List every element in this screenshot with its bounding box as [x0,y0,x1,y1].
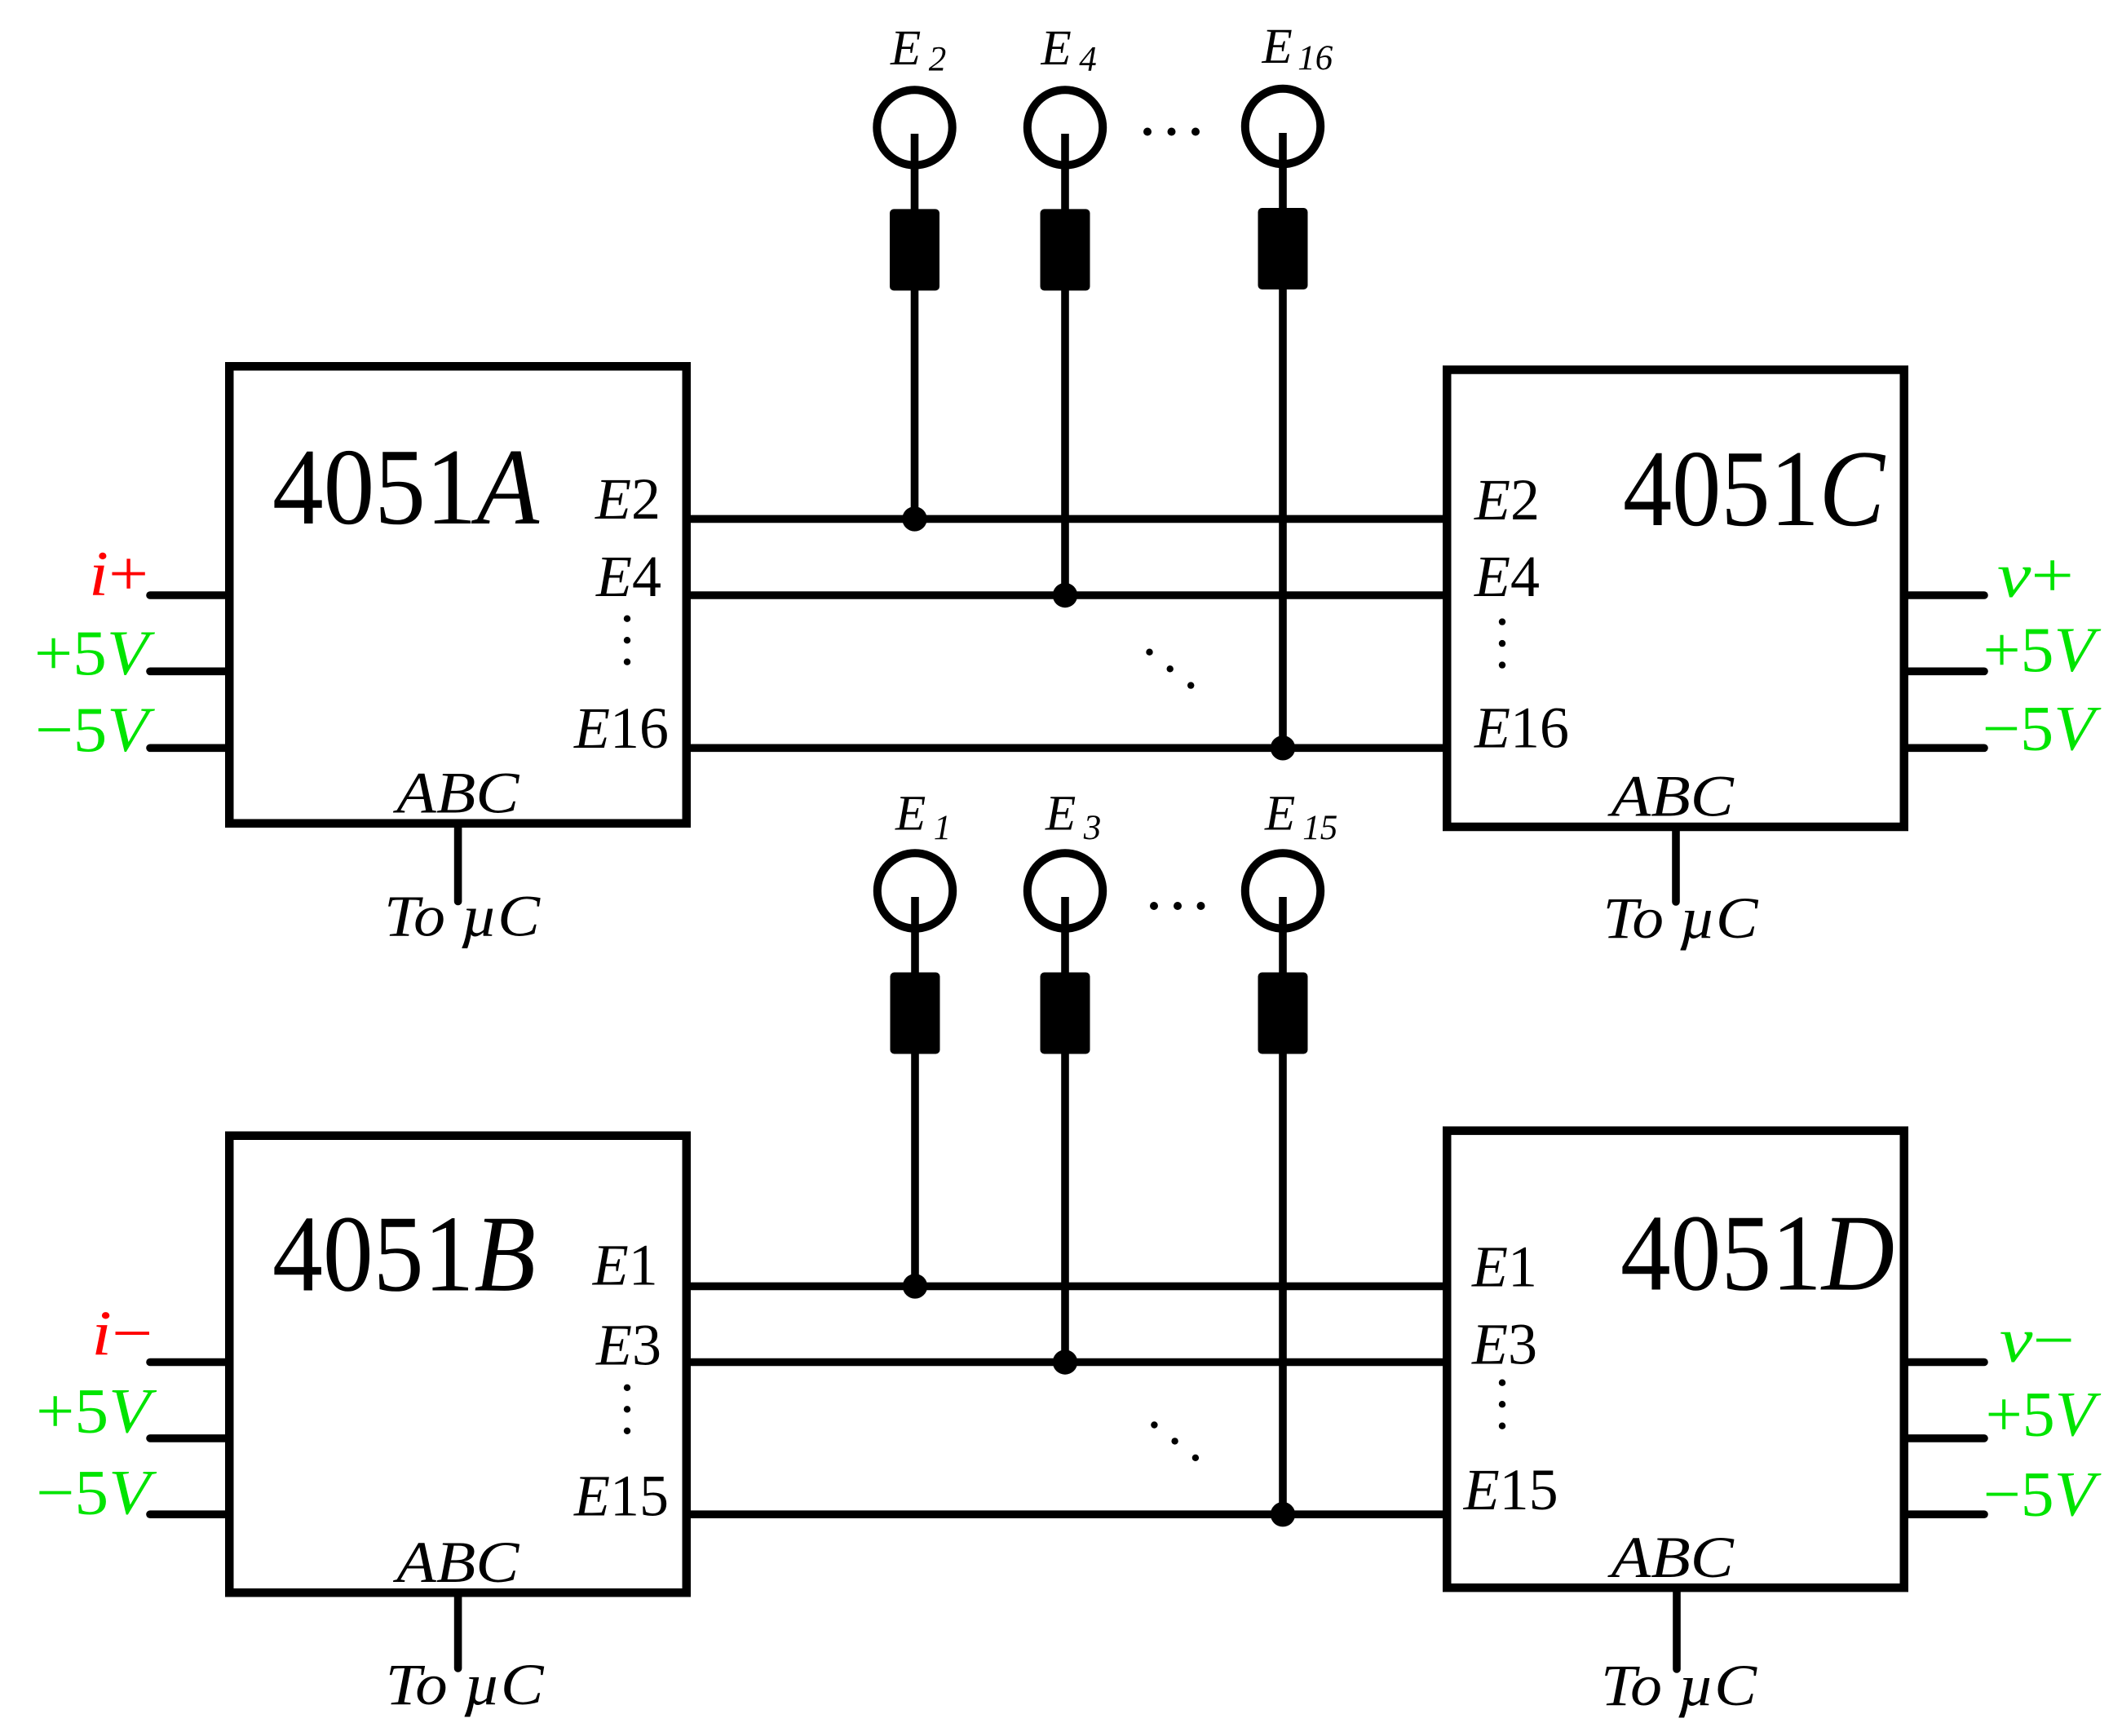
multiplexer box U-B (4051B) [229,1136,687,1593]
svg-text:i+: i+ [89,538,148,609]
svg-text:To µC: To µC [1603,886,1759,951]
multiplexer box U-D (4051D) [1447,1131,1904,1588]
svg-text:E4: E4 [1474,544,1540,609]
svg-text:4051B: 4051B [272,1194,536,1314]
wire net E4 (4051A to 4051C) [687,591,1447,599]
svg-text:E: E [1264,787,1295,841]
wire net E15 (4051B to 4051D) [687,1510,1447,1518]
svg-text:ABC: ABC [393,1530,519,1595]
svg-text:−5V: −5V [35,694,156,765]
wire net E3 (4051B to 4051D) [687,1358,1447,1367]
pin stub -5V (4051D right) [1904,1510,1984,1518]
wire net E1 (4051B to 4051D) [687,1283,1447,1291]
ABC control stem (4051C) [1672,827,1680,902]
junction dot E3 [1053,1349,1077,1374]
svg-text:E16: E16 [573,696,669,761]
multiplexer box U-C (4051C) [1447,370,1904,828]
svg-text:ABC: ABC [1607,764,1734,829]
svg-text:4: 4 [1079,41,1097,79]
pin stub +5V (4051A left) [150,667,229,675]
svg-text:E: E [890,21,921,76]
svg-text:i−: i− [91,1297,153,1368]
svg-text:1: 1 [934,809,952,847]
svg-text:+5V: +5V [36,1376,157,1447]
electrode E4 (circle, stem, pad) [1028,90,1103,595]
multiplexer box U-A (4051A) [229,366,687,824]
electrode E1 (circle, stem, pad) [878,853,953,1286]
electrode E3 (circle, stem, pad) [1028,853,1103,1362]
ellipsis dots middle electrode row [1150,902,1205,910]
svg-text:3: 3 [1083,809,1102,847]
svg-text:v+: v+ [1997,540,2074,611]
junction dot E2 [902,506,926,531]
svg-text:+5V: +5V [1983,614,2102,685]
svg-text:E15: E15 [573,1463,669,1528]
svg-text:v−: v− [2000,1305,2075,1376]
svg-text:ABC: ABC [393,760,519,825]
svg-text:+5V: +5V [34,617,156,688]
diagonal dots top wire group [1146,649,1194,689]
pin stub -5V (4051B left) [150,1510,229,1518]
wire net E16 (4051A to 4051C) [687,744,1447,752]
junction dot E4 [1053,583,1077,607]
svg-text:To µC: To µC [384,884,541,949]
junction dot E15 [1271,1502,1295,1526]
svg-text:E3: E3 [595,1313,661,1378]
pin stub i+ (4051A left) [150,591,229,599]
svg-text:16: 16 [1298,39,1333,77]
svg-text:To µC: To µC [1601,1653,1757,1718]
svg-text:−5V: −5V [1983,693,2102,764]
svg-text:E: E [1262,20,1293,74]
ABC control stem (4051B) [454,1592,462,1668]
vertical dots in 4051A [624,616,630,665]
svg-text:E4: E4 [595,544,661,609]
pin stub i- (4051B left) [150,1358,229,1367]
svg-text:E1: E1 [592,1233,658,1298]
wire net E2 (4051A to 4051C) [687,515,1447,523]
svg-text:E1: E1 [1471,1234,1537,1299]
svg-text:E: E [1045,787,1076,841]
svg-text:4051D: 4051D [1620,1193,1894,1314]
junction dot E16 [1271,735,1295,760]
diagonal dots bottom wire group [1151,1421,1199,1461]
svg-text:4051A: 4051A [272,426,540,547]
pin stub v+ (4051C right) [1904,591,1984,599]
svg-text:E15: E15 [1463,1457,1558,1522]
vertical dots in 4051C [1499,618,1505,668]
svg-text:To µC: To µC [386,1652,545,1717]
svg-text:ABC: ABC [1607,1525,1734,1590]
ABC control stem (4051A) [454,824,462,902]
svg-text:E: E [1041,21,1072,76]
ellipsis dots top electrode row [1143,128,1200,136]
vertical dots in 4051B [624,1385,630,1434]
ABC control stem (4051D) [1673,1588,1681,1669]
junction dot E1 [903,1274,927,1298]
svg-text:E2: E2 [1474,467,1540,532]
electrode E16 (circle, stem, pad) [1245,89,1320,749]
svg-text:−5V: −5V [1983,1459,2102,1530]
svg-text:2: 2 [929,41,947,79]
electrode E2 (circle, stem, pad) [877,90,952,519]
pin stub +5V (4051D right) [1904,1434,1984,1442]
vertical dots in 4051D [1499,1380,1505,1429]
pin stub -5V (4051C right) [1904,744,1984,752]
pin stub +5V (4051C right) [1904,667,1984,675]
svg-text:−5V: −5V [36,1457,157,1528]
pin stub +5V (4051B left) [150,1434,229,1442]
pin stub v- (4051D right) [1904,1358,1984,1367]
svg-text:4051C: 4051C [1623,428,1885,549]
svg-text:+5V: +5V [1986,1379,2102,1450]
svg-text:E16: E16 [1474,696,1569,761]
svg-text:15: 15 [1302,809,1337,847]
svg-text:E2: E2 [595,466,661,532]
svg-text:E3: E3 [1471,1312,1537,1377]
svg-text:E: E [895,787,926,841]
pin stub -5V (4051A left) [150,744,229,752]
electrode E15 (circle, stem, pad) [1245,853,1320,1514]
